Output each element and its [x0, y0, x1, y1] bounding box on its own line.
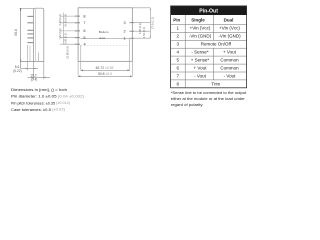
extension lines below bottom view [78, 39, 132, 77]
svg-text:Single: Single [191, 17, 205, 22]
svg-text:-Vin (GND): -Vin (GND) [218, 34, 241, 39]
svg-text:3: 3 [177, 42, 180, 47]
arrows on right vertical dimension [150, 8, 151, 10]
svg-text:+Vin (Vcc): +Vin (Vcc) [190, 26, 211, 31]
svg-text:2: 2 [177, 34, 180, 39]
bottom view case outline [78, 8, 132, 62]
pin pitch rotated labels [58, 14, 70, 59]
svg-text:Dual: Dual [224, 17, 234, 22]
right dimension rotated labels [138, 17, 154, 38]
svg-text:6: 6 [83, 28, 85, 33]
svg-text:- Vout: - Vout [224, 73, 237, 78]
bottom view centre line through pin 5 and pin 1 [81, 38, 130, 40]
svg-text:(0.22): (0.22) [13, 69, 21, 73]
svg-text:either at the module or at the: either at the module or at the load unde… [171, 96, 246, 101]
svg-text:5.08 (0.2): 5.08 (0.2) [138, 23, 142, 34]
side view case outline [20, 8, 44, 61]
svg-text:Pin pitch tolerances: ±0.35 (±: Pin pitch tolerances: ±0.35 (±0.014) [11, 100, 71, 105]
side view pin ticks [27, 16, 33, 42]
svg-text:Pin: Pin [173, 17, 180, 22]
svg-text:- Vout: - Vout [194, 73, 207, 78]
svg-text:regard of polarity.: regard of polarity. [171, 102, 204, 107]
svg-text:50.8 ±0.5: 50.8 ±0.5 [98, 72, 112, 76]
svg-text:Bottom: Bottom [99, 30, 109, 34]
pin-out table header bar [171, 6, 247, 15]
svg-text:50.8: 50.8 [14, 29, 18, 36]
faint pin4 row line [81, 44, 130, 46]
svg-text:Common: Common [220, 65, 239, 70]
svg-text:7: 7 [177, 73, 180, 78]
pin labels 8 7 6 5 4 [83, 13, 86, 46]
dimension line 50.8 vertical [20, 8, 34, 68]
svg-text:+ Vout: + Vout [223, 50, 237, 55]
svg-text:8: 8 [83, 13, 85, 18]
svg-text:22.86 (0.9): 22.86 (0.9) [66, 46, 70, 59]
pin labels 3 2 1 [124, 20, 126, 40]
svg-text:10.16 (0.4): 10.16 (0.4) [63, 14, 67, 27]
dimensions note [11, 87, 85, 112]
svg-text:5: 5 [83, 35, 85, 40]
svg-text:Case tolerances: ±0.5 (±0.02): Case tolerances: ±0.5 (±0.02) [11, 107, 66, 112]
dimension 5.6 pin length [21, 45, 38, 71]
svg-text:3: 3 [124, 20, 126, 25]
table outer border [171, 6, 247, 88]
svg-text:Pin diameter: 1.0 ±0.05 (0.04: Pin diameter: 1.0 ±0.05 (0.04 ±0.002) [11, 94, 85, 99]
svg-text:Dimensions in [mm], () = Inch: Dimensions in [mm], () = Inch [11, 87, 67, 92]
svg-text:1: 1 [124, 35, 126, 40]
svg-text:2: 2 [124, 28, 126, 33]
table body rows [177, 26, 242, 87]
right side pin position dimension lines [132, 8, 150, 38]
svg-text:5.08 (0.2): 5.08 (0.2) [63, 33, 67, 44]
svg-text:+Vin (Vcc): +Vin (Vcc) [219, 26, 240, 31]
dimension 10.2 case thickness [28, 61, 51, 79]
svg-text:view: view [99, 36, 106, 40]
svg-text:4: 4 [84, 41, 87, 46]
svg-text:Pin-Out: Pin-Out [199, 8, 218, 14]
svg-text:7.62 (0.3): 7.62 (0.3) [58, 28, 62, 39]
svg-text:4: 4 [177, 50, 180, 55]
dimension 45.72 pin row distance [81, 69, 130, 71]
svg-text:Remote On/Off: Remote On/Off [201, 42, 232, 47]
side view inner edge line [35, 8, 37, 61]
footnote sense line [171, 90, 247, 107]
svg-text:+ Vout: + Vout [194, 65, 208, 70]
svg-text:*Sense line to be connected to: *Sense line to be connected to the outpu… [171, 90, 247, 95]
svg-text:Common: Common [220, 57, 239, 62]
table column headers [173, 17, 233, 22]
svg-text:Trim: Trim [211, 81, 220, 86]
svg-text:1: 1 [177, 26, 180, 31]
svg-text:2.54 (0.1): 2.54 (0.1) [142, 27, 146, 38]
svg-text:45.72 ±0.35: 45.72 ±0.35 [96, 66, 114, 70]
svg-text:+ Sense*: + Sense* [191, 57, 210, 62]
svg-text:(0.4): (0.4) [31, 78, 38, 82]
pin pitch dimension lines between views [60, 13, 78, 45]
svg-text:6: 6 [177, 65, 180, 70]
table row lines [171, 24, 247, 80]
bottom view left pin ticks [75, 16, 80, 44]
table column lines [185, 15, 213, 88]
bottom view right pin ticks [130, 23, 135, 39]
svg-text:27.9 (1.1): 27.9 (1.1) [151, 17, 155, 29]
svg-text:5: 5 [177, 57, 180, 62]
side view bottom connector box [38, 53, 40, 62]
svg-text:8: 8 [177, 81, 180, 86]
svg-text:-Vin (GND): -Vin (GND) [189, 34, 212, 39]
dimension 50.8 case length [78, 75, 132, 77]
svg-text:- Sense*: - Sense* [191, 50, 209, 55]
svg-text:7: 7 [83, 20, 85, 25]
svg-text:5.08 (0.2): 5.08 (0.2) [58, 14, 62, 25]
side view bottom flange lines [29, 46, 31, 62]
